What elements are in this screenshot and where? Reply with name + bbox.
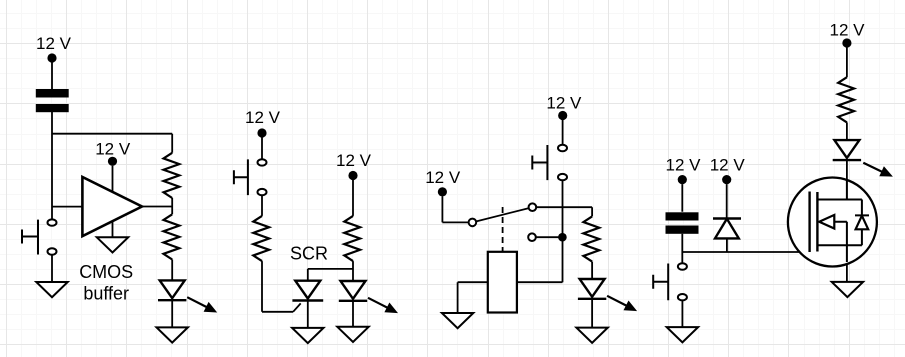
svg-text:12 V: 12 V bbox=[425, 168, 461, 187]
svg-text:CMOS: CMOS bbox=[79, 262, 133, 282]
svg-text:12 V: 12 V bbox=[336, 151, 372, 170]
svg-text:SCR: SCR bbox=[290, 244, 328, 264]
svg-text:12 V: 12 V bbox=[95, 139, 131, 158]
svg-text:12 V: 12 V bbox=[830, 21, 866, 40]
svg-text:buffer: buffer bbox=[83, 284, 129, 304]
svg-text:12 V: 12 V bbox=[245, 108, 281, 127]
svg-text:12 V: 12 V bbox=[710, 156, 746, 175]
svg-text:12 V: 12 V bbox=[666, 156, 702, 175]
svg-text:12 V: 12 V bbox=[546, 94, 582, 113]
svg-text:12 V: 12 V bbox=[36, 34, 72, 53]
